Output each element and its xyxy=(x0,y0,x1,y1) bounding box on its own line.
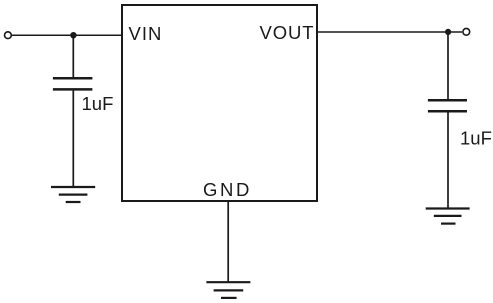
output terminal (open circle) xyxy=(463,28,470,35)
ground (left, below C1) xyxy=(51,187,95,202)
wire junction down to C1 top plate xyxy=(72,35,74,78)
svg-text:VIN: VIN xyxy=(129,23,163,44)
wire junction to output terminal xyxy=(448,31,462,33)
value label 1uF (C2) xyxy=(460,128,492,149)
node A (junction dot on VIN net) xyxy=(70,32,76,38)
wire input terminal to VIN pin xyxy=(12,34,122,36)
svg-text:GND: GND xyxy=(203,179,252,200)
pin label VOUT xyxy=(260,22,315,43)
svg-text:1uF: 1uF xyxy=(460,128,492,149)
capacitor C1 (1uF input cap) xyxy=(53,78,93,89)
pin label GND xyxy=(203,179,252,200)
capacitor C2 (1uF output cap) xyxy=(428,100,467,111)
svg-text:VOUT: VOUT xyxy=(260,22,315,43)
wire GND pin down to ground xyxy=(227,201,229,282)
input terminal (open circle) xyxy=(5,32,12,39)
ground (center, below GND pin) xyxy=(206,282,250,298)
op-amp U1 (regulator IC body) xyxy=(122,5,317,201)
wire junction down to C2 top plate xyxy=(447,32,449,100)
svg-text:1uF: 1uF xyxy=(82,93,114,114)
value label 1uF (C1) xyxy=(82,93,114,114)
ground (right, below C2) xyxy=(426,209,470,224)
node B (junction dot on VOUT net) xyxy=(445,29,451,35)
wire C2 bottom plate to ground xyxy=(447,111,449,208)
pin label VIN xyxy=(129,23,163,44)
wire VOUT pin to output junction xyxy=(317,31,448,33)
wire C1 bottom plate to ground xyxy=(72,89,74,187)
